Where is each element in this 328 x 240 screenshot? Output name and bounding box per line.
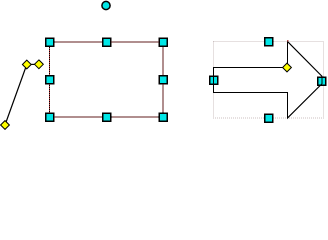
handle rect right-mid	[159, 76, 167, 84]
handle rect top-left	[46, 38, 54, 46]
handle rect top-mid	[103, 38, 111, 46]
diamond control point on arrow	[283, 63, 292, 72]
polyline L (left object)	[5, 64, 39, 125]
handle arrow left-mid	[210, 76, 218, 84]
handle rect bottom-mid	[103, 113, 111, 121]
handle rect top-right	[159, 38, 167, 46]
diamond handle L end (bottom)	[1, 121, 10, 130]
arrow selection box (dotted)	[214, 42, 324, 119]
handle rect bottom-left	[46, 113, 54, 121]
handle rect bottom-right	[159, 113, 167, 121]
handle arrow bottom-mid	[265, 114, 273, 122]
block arrow outline redrawn over handles	[214, 42, 323, 119]
handle arrow top-mid	[265, 38, 273, 46]
handle rect left-mid	[46, 76, 54, 84]
connection point (red dot at arrow top vertex)	[287, 40, 289, 42]
rectangle R (selected, red/black dashed outline)	[50, 42, 164, 117]
diamond handle L end (right)	[35, 60, 44, 69]
diamond handle L mid	[22, 60, 31, 69]
handle arrow right-mid	[318, 77, 326, 85]
rectangle handles (8 cyan squares)	[46, 38, 168, 121]
block arrow A (right object)	[214, 42, 323, 119]
ellipse handle (cyan circle top center)	[102, 1, 110, 9]
arrow handles (4 cyan squares)	[210, 38, 326, 123]
